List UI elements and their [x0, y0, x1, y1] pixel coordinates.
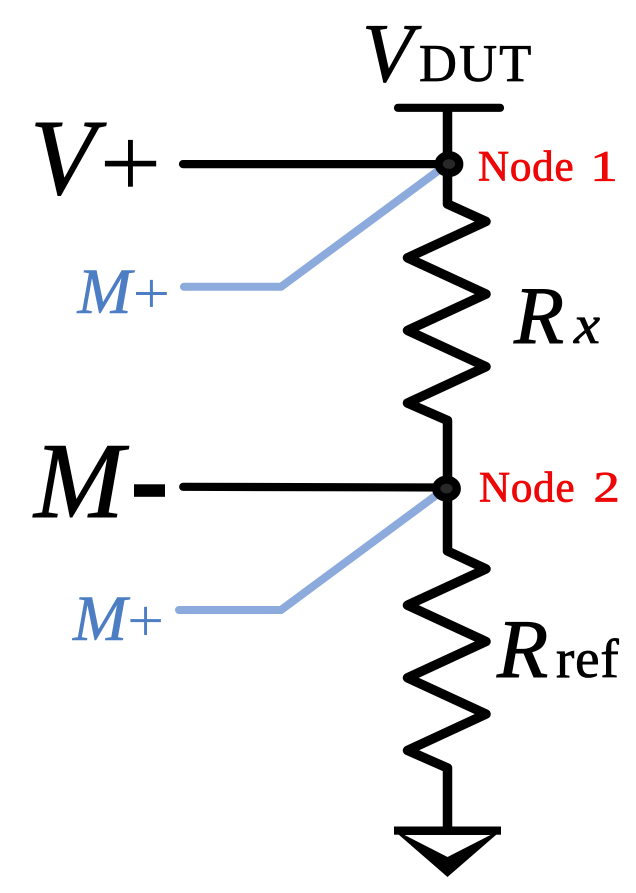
- resistor Rx: [408, 160, 487, 488]
- svg-text:Node: Node: [479, 465, 575, 512]
- resistor Rref: [408, 488, 487, 829]
- power rail bar for V_DUT: [398, 104, 500, 112]
- sense lead M+ (lower): [179, 488, 446, 610]
- node 2 junction dot: [436, 480, 457, 498]
- ground top bar: [394, 827, 501, 835]
- net label V_DUT: [362, 7, 534, 100]
- wire: M- to Node 2: [183, 483, 446, 492]
- wire: rail to Node 1: [443, 104, 453, 164]
- svg-text:2: 2: [594, 464, 620, 512]
- svg-text:V: V: [362, 7, 422, 100]
- sense lead M+ (upper): [184, 164, 448, 287]
- value label Rref: [496, 603, 619, 696]
- svg-text:R: R: [496, 603, 548, 696]
- wire: V+ to Node 1: [183, 160, 447, 168]
- svg-text:ref: ref: [556, 628, 619, 689]
- value label Rx: [513, 270, 601, 361]
- svg-text:R: R: [513, 270, 564, 361]
- svg-text:DUT: DUT: [419, 35, 534, 93]
- svg-text:Node: Node: [478, 144, 574, 191]
- node 1 junction dot: [439, 155, 460, 173]
- svg-text:M: M: [77, 256, 136, 328]
- ground triangle outline: [395, 831, 501, 877]
- svg-text:V: V: [30, 99, 107, 218]
- svg-text:M: M: [72, 583, 131, 655]
- svg-text:x: x: [573, 294, 601, 355]
- svg-text:1: 1: [590, 142, 618, 190]
- svg-text:M: M: [32, 422, 129, 541]
- ground: [394, 827, 501, 878]
